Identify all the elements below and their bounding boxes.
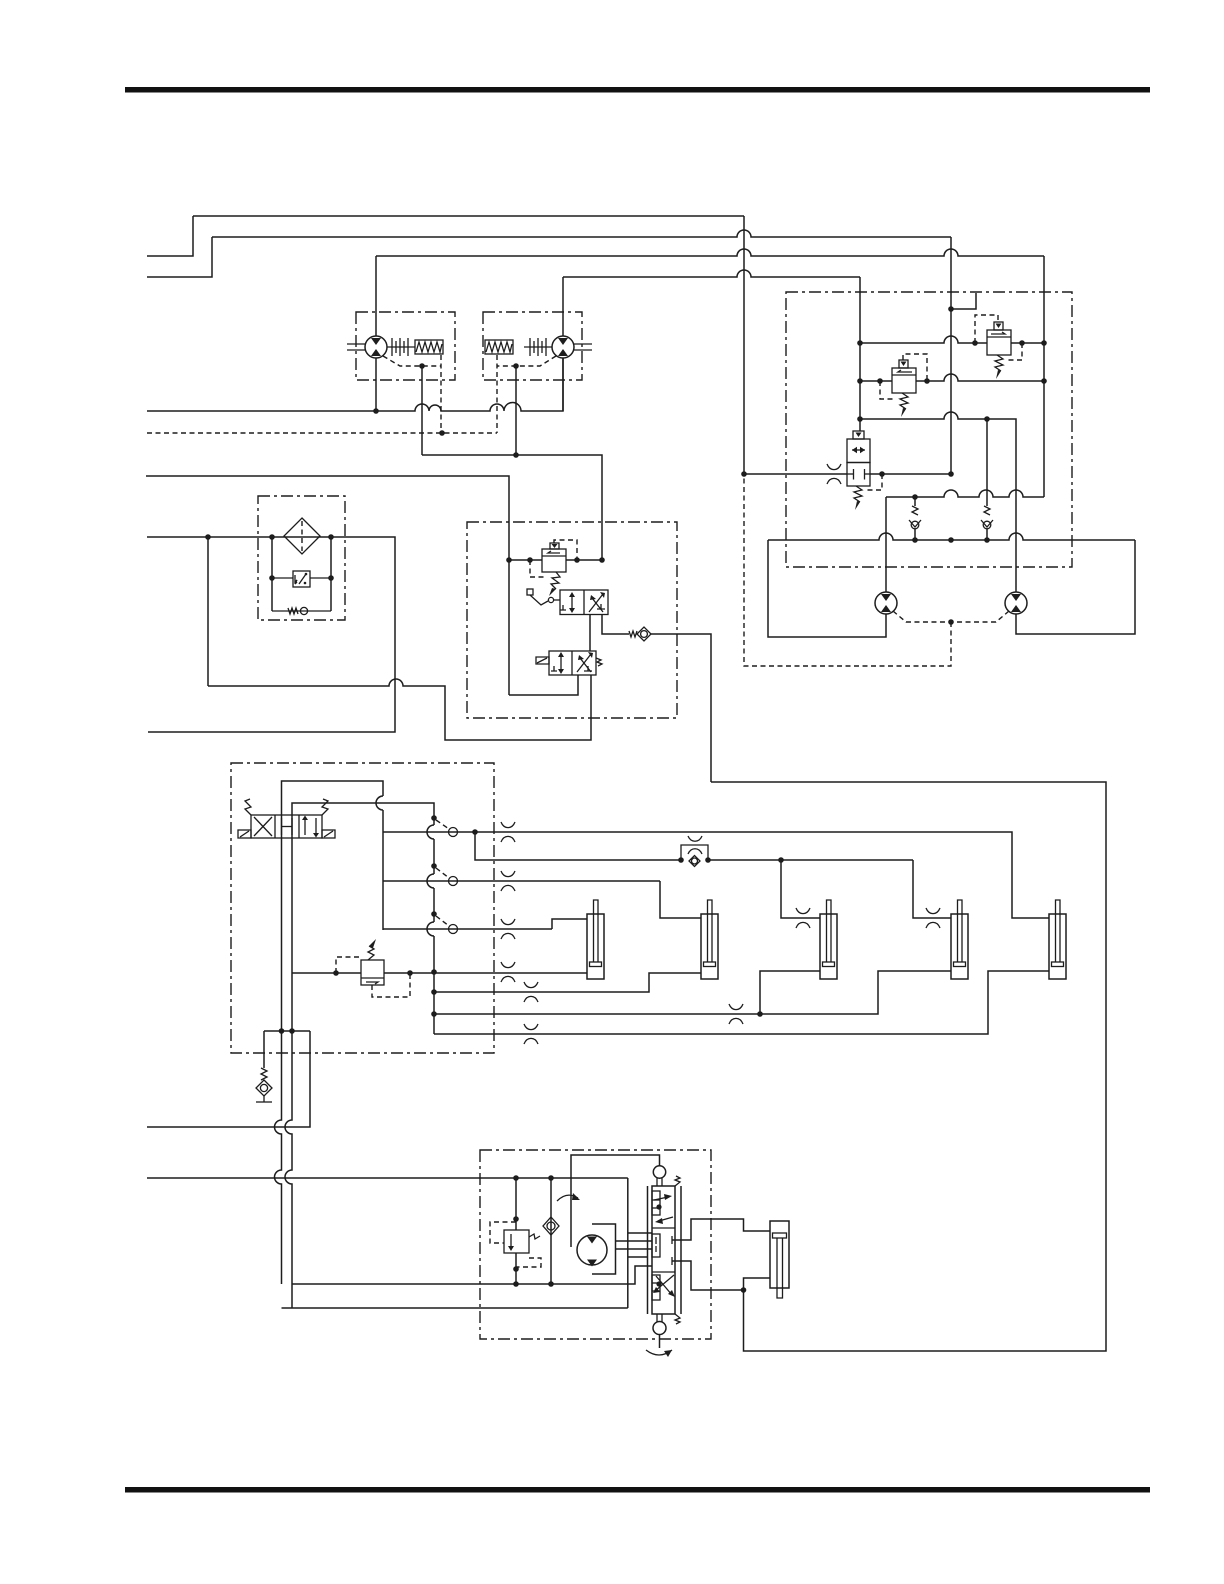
enclosure filter xyxy=(258,496,345,620)
stack middle section xyxy=(652,1234,660,1257)
enclosure control valve block xyxy=(467,522,677,718)
wire stub B (left edge to line 2) xyxy=(147,237,212,277)
motor M1 xyxy=(365,336,387,358)
rotation arrow xyxy=(557,1195,578,1201)
node drain junction xyxy=(948,619,954,625)
node drain/M2 xyxy=(513,452,519,458)
wire steering wheel shaft xyxy=(571,1155,660,1247)
node row832 branch xyxy=(472,829,478,835)
gerotor xyxy=(577,1235,607,1265)
wire tank row y=497 xyxy=(886,490,1044,497)
wire return loop xyxy=(711,782,1106,1351)
rotation arrow bottom xyxy=(646,1350,672,1355)
check valve bypass bracket xyxy=(681,845,708,860)
break row929 xyxy=(501,919,515,939)
wire brake release line (dashed) xyxy=(147,432,497,434)
break row1034 xyxy=(524,1024,538,1044)
V6 left cell X xyxy=(254,817,272,836)
wire tank header y=686 xyxy=(208,675,591,740)
arrows V5 left cell xyxy=(560,655,562,671)
break row1014 xyxy=(729,1004,743,1024)
node row540 cv1 xyxy=(912,537,918,543)
node check left xyxy=(678,857,684,863)
wire V6 T riser xyxy=(291,815,293,838)
node row560 x509 xyxy=(506,557,512,563)
gerotor box xyxy=(592,1224,616,1274)
shaft M2 xyxy=(574,343,592,345)
spring V6 right xyxy=(322,799,328,815)
wire P2 riser x=951 xyxy=(950,237,952,474)
wire line 4 (motor M2 top to right block rows) xyxy=(563,270,860,277)
node row474 left xyxy=(741,471,747,477)
wire M2 top port xyxy=(562,277,564,336)
wire pilot to box edge xyxy=(951,293,976,309)
pilot RV3 (dashed) xyxy=(554,540,577,560)
wire c3 feed xyxy=(760,971,820,1014)
node row474 pilot xyxy=(879,471,885,477)
wire c3 upper feed xyxy=(781,860,820,918)
node row497 cv1 xyxy=(912,494,918,500)
coupler QC3 xyxy=(431,911,437,917)
solenoid V6 left xyxy=(238,830,251,838)
arrows V5 right cell xyxy=(577,654,591,672)
wire column bottom xyxy=(659,1335,661,1349)
node filter inlet xyxy=(205,534,211,540)
wire V4 to V5 xyxy=(589,615,591,652)
relief valve RV4 row y=973 xyxy=(292,972,361,974)
wire row A y=343 xyxy=(860,336,987,343)
check valve CV-P (spring diamond) xyxy=(629,631,637,637)
node row474 right xyxy=(948,471,954,477)
break row918b xyxy=(926,908,940,928)
check valve filter bypass xyxy=(272,610,331,612)
node rowA pilot xyxy=(972,340,978,346)
wire M1 case drain (dashed) xyxy=(383,356,441,366)
break row881 xyxy=(501,871,515,891)
pressure switch PS1 xyxy=(293,571,310,587)
cylinder C3 xyxy=(820,914,837,979)
node rowA right xyxy=(1019,340,1025,346)
coupler QC1 xyxy=(431,815,437,821)
wire filter feed y=537 xyxy=(147,537,395,732)
wire left port rows xyxy=(627,1178,629,1308)
check valve CV5 xyxy=(550,1178,552,1284)
wire c4 upper feed xyxy=(913,860,951,918)
wire row881 to C2 xyxy=(660,881,701,918)
hand valve V4 xyxy=(560,590,608,615)
wire line 3 (motor M1 top to right block) xyxy=(376,249,1044,256)
node x860 rowC xyxy=(857,416,863,422)
node rowC check tap xyxy=(984,416,990,422)
node P2 pilot tap xyxy=(948,306,954,312)
V6 right cell arrows xyxy=(304,818,306,835)
wire feed riser x=383 xyxy=(382,810,384,930)
wire row 1014 xyxy=(434,971,951,1014)
springs stack xyxy=(675,1176,680,1186)
bottom rule xyxy=(125,1487,1150,1493)
wire supply riser x=860 xyxy=(859,277,861,431)
hop x383 over row803 xyxy=(376,796,383,810)
wire coupler row 2 y=881 xyxy=(383,880,660,882)
wire V5 left port U xyxy=(509,675,578,695)
spring RV1 xyxy=(995,355,1003,371)
wire row C y=419 xyxy=(860,412,1016,592)
lever V4 xyxy=(527,589,533,595)
node filter left xyxy=(269,534,275,540)
wire row 1034 xyxy=(434,971,1049,1034)
node PS left xyxy=(269,575,275,581)
node x860 rowB xyxy=(857,378,863,384)
wire M3 feed xyxy=(885,497,887,592)
wire M2 drain down xyxy=(515,366,517,455)
wire drain header y=455 xyxy=(422,455,602,560)
coupler QC2 xyxy=(431,863,437,869)
wire right loop to M4 xyxy=(1016,540,1135,634)
wire supply row 1284 xyxy=(292,1266,652,1284)
check valve CV3 to tank xyxy=(263,1031,265,1068)
spring V5 xyxy=(596,658,602,666)
coupling M1 xyxy=(387,346,415,348)
wire check to right riser xyxy=(651,634,711,782)
break row918a xyxy=(796,908,810,928)
wire drain return (dashed) xyxy=(744,474,951,666)
wire M1 top port xyxy=(375,256,377,336)
break row992 xyxy=(524,982,538,1002)
wire gray riser x=1044 xyxy=(1043,256,1045,497)
relief valve RV2 xyxy=(892,368,916,393)
break mark row474 xyxy=(827,464,841,484)
node cylinder line xyxy=(741,1287,747,1293)
node x860 rowA xyxy=(857,340,863,346)
wire coupler row 3 y=929 xyxy=(383,928,552,930)
pilot RV4 (dashed) xyxy=(336,957,359,973)
break row973 xyxy=(501,962,515,982)
solenoid valve V5 xyxy=(549,651,596,675)
spring V3 xyxy=(854,486,862,502)
wire return row y=411 xyxy=(147,358,563,411)
node row540 p2 xyxy=(948,537,954,543)
wire P pass-down x281 xyxy=(275,838,282,1284)
relief valve RV3 xyxy=(542,549,566,572)
wire left loop to M3 xyxy=(768,540,886,637)
node RV4 pilot left xyxy=(333,970,339,976)
steering wheel top xyxy=(653,1166,665,1178)
solenoid V3 xyxy=(853,431,864,439)
brake spring box M2 xyxy=(485,340,513,354)
node dashed junction xyxy=(439,430,445,436)
adjust arrow RV4 xyxy=(368,946,374,960)
check valve CV2 xyxy=(986,419,988,506)
wire suction line y=476 xyxy=(146,476,509,695)
wire T pass-down x292 xyxy=(285,838,292,1308)
arrows V4 right cell xyxy=(589,594,603,612)
spring V6 left xyxy=(245,799,251,815)
motor M4 xyxy=(1005,592,1027,614)
node row1178 check xyxy=(548,1175,554,1181)
wire return riser x=434 segments xyxy=(433,839,435,874)
steering wheel bottom xyxy=(653,1322,666,1335)
hops x434 over rows xyxy=(427,825,434,936)
break on bracket xyxy=(688,836,702,854)
wire V6 P riser xyxy=(281,815,283,838)
motor M3 xyxy=(875,592,897,614)
wire bottom row y=540 xyxy=(768,533,1135,540)
enclosure right valve block xyxy=(786,292,1072,567)
stack bottom section xyxy=(652,1275,660,1300)
node PS right xyxy=(328,575,334,581)
pilot RV5 (dashed) xyxy=(490,1222,516,1243)
valve stack body xyxy=(652,1186,675,1314)
enclosure M2 (wheel motor right) xyxy=(483,312,582,380)
wire row 992 xyxy=(434,973,701,992)
node rowB right xyxy=(924,378,930,384)
stack top section xyxy=(652,1191,660,1215)
pilot V3 (dashed) xyxy=(866,474,882,490)
cylinder C1 xyxy=(587,914,604,979)
node row560 x577 xyxy=(574,557,580,563)
pilot RV2 (dashed) xyxy=(903,354,927,381)
V6 center cell xyxy=(281,818,283,835)
node M2 drain junction xyxy=(513,363,519,369)
wire filter return xyxy=(207,537,209,686)
wire row929 to C1 xyxy=(552,919,587,929)
node row411/M1 xyxy=(373,408,379,414)
relief valve RV1 xyxy=(987,330,1011,355)
cylinder C4 xyxy=(951,914,968,979)
wire M2 brake pilot (dashed) xyxy=(496,355,498,433)
node row1178 rv5 xyxy=(513,1175,519,1181)
wire M1 brake pilot (dashed) xyxy=(440,355,442,433)
wire brake valve row y=474 xyxy=(744,473,847,475)
wire T jog y=1031 xyxy=(264,1030,310,1032)
wire tank row 1308 xyxy=(282,1307,628,1309)
arrows V4 left cell xyxy=(571,595,573,610)
spring RV3 xyxy=(551,572,560,589)
wire lift row y=860 xyxy=(475,832,681,860)
wire M2 case drain (dashed) xyxy=(497,356,556,366)
brake valve V3 xyxy=(847,439,870,463)
wire M1 bottom port xyxy=(375,358,377,411)
node check right xyxy=(705,857,711,863)
wire filter bypass left xyxy=(271,537,273,611)
wire gerotor ports xyxy=(616,1240,653,1242)
wire right port B xyxy=(671,1257,673,1265)
directional valve V6 xyxy=(251,815,322,838)
enclosure selector block xyxy=(231,763,494,1053)
solenoid V6 right xyxy=(322,830,335,838)
wire tank row y=1178 xyxy=(147,1177,628,1179)
node row540 cv2 xyxy=(984,537,990,543)
wire line 2 (y=237 to right block P2) xyxy=(212,230,951,237)
wire right port A xyxy=(671,1236,673,1244)
nodes return riser xyxy=(431,989,437,995)
cylinder C2 xyxy=(701,914,718,979)
spring RV2 xyxy=(900,393,908,409)
wire P1 riser x=744 xyxy=(743,216,745,474)
wire rv5 branch x=516 xyxy=(515,1178,517,1230)
wire to cylinder rod end xyxy=(744,1278,771,1290)
wire stub A (left edge to line 1) xyxy=(147,216,193,256)
wire M1 drain down xyxy=(421,366,423,455)
node filter right xyxy=(328,534,334,540)
node row860 c3 branch xyxy=(778,857,784,863)
check valve CV1 xyxy=(914,497,916,506)
valve stack rails xyxy=(647,1186,649,1314)
node RV4 pilot right xyxy=(407,970,413,976)
wire M2 bottom port xyxy=(562,358,564,411)
wire coupler row 1 y=832 xyxy=(383,832,1049,918)
wire motor drains (dashed) xyxy=(893,611,951,622)
wire pressure row y=560 xyxy=(509,559,542,561)
cylinder C5 xyxy=(1049,914,1066,979)
node row973 x434 xyxy=(431,969,437,975)
pilot RV1 (dashed) xyxy=(975,315,998,343)
wire row B y=381 xyxy=(860,380,892,382)
node rowB pilot left xyxy=(877,378,883,384)
node row560 x602 xyxy=(599,557,605,563)
wire line 1 (y=216 to right block valve line) xyxy=(193,215,744,217)
node rowA end xyxy=(1041,340,1047,346)
coupling M2 xyxy=(524,346,552,348)
filter F1 xyxy=(284,518,320,554)
wire V4 right port to check xyxy=(602,615,629,635)
wire filter bypass right xyxy=(330,537,332,611)
steering cylinder SC xyxy=(770,1221,789,1288)
motor M2 xyxy=(552,336,574,358)
wire aux riser x310 xyxy=(147,1031,310,1127)
relief valve RV4 xyxy=(361,960,384,985)
relief valve RV5 xyxy=(504,1230,529,1253)
enclosure M1 (wheel motor left) xyxy=(356,312,455,380)
enclosure steering unit xyxy=(480,1150,711,1339)
solenoid V5 xyxy=(536,657,549,664)
node M1 drain junction xyxy=(419,363,425,369)
node rowB end xyxy=(1041,378,1047,384)
brake spring box M1 xyxy=(415,340,443,354)
break row832 xyxy=(501,822,515,842)
shaft M1 xyxy=(347,343,365,345)
check valve CV4 xyxy=(689,856,700,867)
node row1014 c3 xyxy=(757,1011,763,1017)
node row560 x530 xyxy=(527,557,533,563)
top rule xyxy=(125,87,1150,93)
